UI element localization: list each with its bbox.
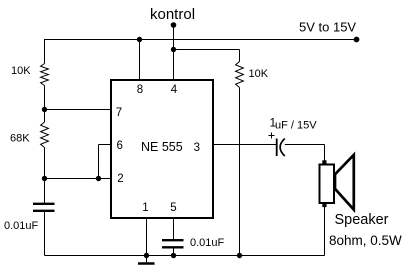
capacitor C3 straight plate: [276, 139, 278, 157]
node VCC terminal dot: [354, 37, 360, 43]
resistor R3 10K (right): [236, 62, 244, 88]
resistor R2 68K: [41, 122, 49, 148]
wire kontrol vertical to pin 4: [173, 25, 175, 80]
speaker LS1 bottom terminal: [322, 203, 326, 207]
wire bottom ground rail: [45, 255, 325, 257]
wire top VCC rail: [44, 39, 357, 41]
svg-text:0.01uF: 0.01uF: [190, 237, 225, 249]
wire pin 1 to ground: [146, 218, 148, 256]
svg-text:kontrol: kontrol: [150, 6, 195, 23]
wire R3 bottom to ground rail: [239, 88, 241, 256]
node B junction dot R2/pin2/C1: [42, 176, 47, 181]
wire pin 5 to C2: [173, 218, 175, 239]
wire C2 bottom to ground rail: [173, 249, 175, 256]
svg-text:7: 7: [116, 107, 122, 119]
wire R2 bottom to node B: [44, 148, 46, 204]
svg-text:8ohm, 0.5W: 8ohm, 0.5W: [329, 233, 402, 248]
svg-text:5: 5: [170, 202, 176, 214]
wire pin 7 to node A: [45, 109, 111, 111]
ground symbol stem: [146, 256, 148, 263]
svg-text:Speaker: Speaker: [335, 212, 389, 228]
capacitor C1 0.01uF plates: [33, 203, 55, 205]
node junction dot pin2/pin6: [96, 176, 101, 181]
capacitor C3 1uF/15V plus sign: [269, 135, 275, 137]
wire R1 bottom to node A: [44, 86, 46, 123]
wire R3 top: [239, 50, 241, 62]
node junction dot pin1/ground: [144, 253, 149, 258]
wire pin 6 stub: [99, 144, 111, 146]
speaker LS1 cone: [335, 155, 354, 210]
svg-text:8: 8: [137, 84, 143, 96]
op-amp U1 NE555 IC body: [111, 80, 213, 218]
ground symbol bar: [138, 262, 155, 265]
svg-text:10K: 10K: [11, 65, 31, 77]
node junction dot pin8/VCC: [137, 37, 142, 42]
node junction dot R3/ground rail: [237, 253, 242, 258]
svg-text:uF / 15V: uF / 15V: [275, 120, 317, 132]
svg-text:0.01uF: 0.01uF: [4, 220, 39, 232]
node A junction dot R1/R2/pin7: [42, 107, 47, 112]
svg-text:3: 3: [194, 142, 200, 154]
node junction dot kontrol/R3/pin4: [171, 47, 176, 52]
speaker LS1 coil body: [320, 165, 335, 204]
svg-text:4: 4: [171, 84, 178, 96]
svg-text:NE 555: NE 555: [141, 140, 183, 154]
capacitor C2 0.01uF plates: [162, 239, 184, 241]
svg-text:10K: 10K: [249, 68, 269, 80]
wire C3 to speaker: [285, 144, 325, 146]
wire C1 bottom to ground rail: [44, 212, 46, 256]
svg-text:6: 6: [116, 140, 122, 152]
capacitor C3 curved plate: [280, 139, 285, 157]
node junction dot C2/ground rail: [171, 253, 176, 258]
svg-text:68K: 68K: [10, 133, 30, 145]
wire kontrol branch to R3: [174, 49, 240, 51]
speaker LS1 top terminal: [322, 160, 326, 164]
svg-text:1: 1: [142, 202, 148, 214]
svg-text:5V to 15V: 5V to 15V: [299, 20, 356, 35]
wire pin 6 branch vertical: [98, 145, 100, 179]
wire pin 3 output: [214, 144, 276, 146]
svg-text:2: 2: [117, 173, 123, 185]
wire pin 2 to node B: [45, 178, 111, 180]
wire pin 8 to VCC rail: [139, 40, 141, 80]
node kontrol terminal dot: [171, 22, 177, 28]
wire speaker bottom vertical: [324, 207, 326, 256]
resistor R1 10K (left): [41, 64, 49, 86]
wire left vertical VCC to R1: [44, 40, 46, 64]
wire speaker top vertical: [324, 145, 326, 162]
